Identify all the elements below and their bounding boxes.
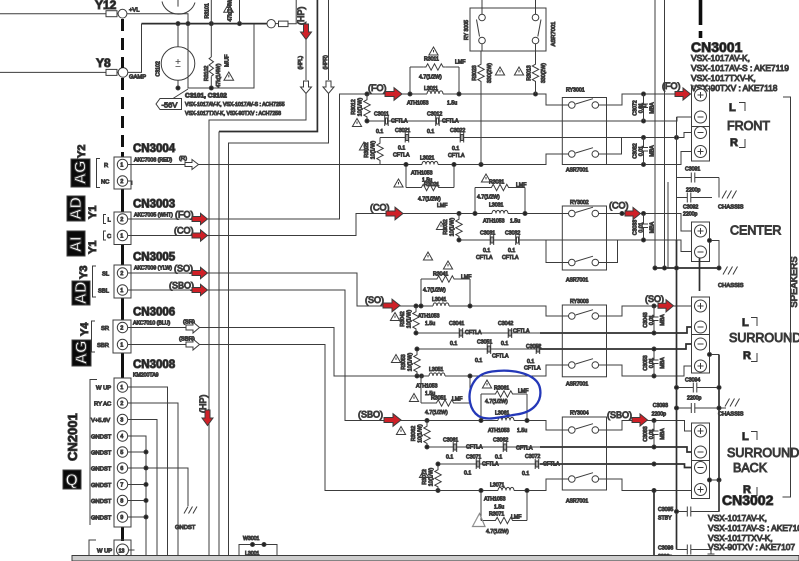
svg-text:(SBO): (SBO) [169,281,194,291]
svg-text:RY3001: RY3001 [566,88,585,94]
node +VL junction circle [118,9,127,18]
svg-text:4.7(1/2W): 4.7(1/2W) [419,75,442,81]
wire pin1 to bus [128,387,168,556]
inductor L3061 [481,417,527,420]
wire CN3006 pin1 SBR out [128,344,186,346]
svg-text:(CO): (CO) [174,226,194,236]
svg-text:0.1: 0.1 [483,248,490,254]
svg-text:4.7(1/2W): 4.7(1/2W) [486,529,509,535]
svg-text:R3062: R3062 [411,426,417,441]
svg-text:CN3008: CN3008 [133,359,176,371]
pin 3 V+5.6V [117,414,127,424]
terminal block SURROUND BACK [692,423,710,499]
svg-text:C3092: C3092 [683,205,698,211]
svg-text:LMF: LMF [455,60,465,66]
warning triangle R3021 [394,179,403,187]
svg-text:LMF: LMF [452,397,462,403]
ground chassis FRONT [722,191,737,199]
svg-text:10(1/W): 10(1/W) [371,141,377,160]
relay RY3004 pole 2 [569,476,576,483]
annotation blue circle around R3061 [470,371,541,419]
wire -56V bold rail [142,23,268,25]
resistor R3022 (shunt) [377,138,383,165]
svg-text:L3011: L3011 [424,86,438,92]
label AD black box second [72,281,90,305]
svg-text:VSX-1017AV-K,: VSX-1017AV-K, [708,513,767,523]
capacitor C3092 [677,197,713,199]
wire speaker return bus B [664,0,666,268]
capacitor C3083 (MBA) [650,421,659,448]
svg-text:C3021: C3021 [395,128,410,134]
wire SO feed from CN3005 [207,273,421,306]
svg-text:4.7(1/2W): 4.7(1/2W) [418,197,441,203]
wire pin5 [128,451,146,453]
svg-text:RY 3005: RY 3005 [464,20,470,40]
warning triangle R3053 [391,355,400,363]
svg-text:2200p: 2200p [686,188,701,194]
node SBO bus junction [652,419,656,423]
svg-text:(HP): (HP) [296,7,306,26]
svg-text:CHASSIS: CHASSIS [718,412,744,418]
svg-text:NC: NC [101,180,109,186]
warning triangle R3042 [390,313,399,321]
connector CN3005 body [114,265,131,298]
terminal SURROUND R+ [695,360,707,372]
relay RY3005 box [470,8,546,51]
svg-text:SBL: SBL [98,289,110,295]
svg-text:R3061: R3061 [494,386,509,392]
node SBL shunt junction [436,489,440,493]
resistor R3102 [210,24,212,88]
svg-text:CFTLA: CFTLA [513,329,530,335]
wire CN3005 pin1 SBO out [128,289,192,291]
connector CN3004 body [114,157,131,189]
svg-text:0.1: 0.1 [452,146,459,152]
svg-text:C3032: C3032 [505,231,520,237]
wire board-edge dash-dot line [121,19,124,152]
svg-text:0.01: 0.01 [639,222,645,232]
arrow red (CO) right [625,207,641,219]
capacitor C3011 [385,116,389,126]
node CO junctions [620,212,624,216]
svg-text:0.1: 0.1 [508,248,515,254]
svg-text:R3101: R3101 [205,3,211,18]
arrow red (FO) out [192,213,208,224]
svg-text:1: 1 [120,343,123,349]
pin 8 GNDST [117,495,127,505]
svg-text:Y8: Y8 [96,56,111,70]
node SO shunt junction [414,304,418,308]
wire HPL lower to bottom [209,94,306,557]
connector CN3008 body [114,378,131,527]
connector pin Y8 [106,69,117,75]
capacitor C3101 (partial, top edge) [162,2,195,15]
resistor R3101 column (partial top) [210,0,212,24]
svg-text:GNDST: GNDST [91,451,112,457]
svg-text:0.01: 0.01 [649,429,655,439]
arrow red (FO) right [675,88,691,100]
svg-text:C3012: C3012 [427,112,442,118]
svg-text:2200p: 2200p [683,212,698,218]
svg-text:R3042: R3042 [400,311,406,326]
node CO shunt junction [457,212,461,216]
wire CO feed from CN3003 [207,214,475,236]
svg-text:ASR7001: ASR7001 [551,22,557,47]
svg-text:GNDST: GNDST [175,525,196,531]
svg-text:MBA: MBA [660,314,666,326]
node FO shunt junction [365,92,369,96]
svg-text:R3012: R3012 [351,99,357,114]
svg-text:0.1: 0.1 [495,455,502,461]
svg-text:0.1: 0.1 [398,146,405,152]
svg-text:+VL: +VL [129,8,140,14]
terminal block SURROUND [692,297,710,373]
relay RY3001 pole 1 [569,102,576,109]
capacitor C3012 [436,116,440,126]
svg-text:GAMP: GAMP [129,75,146,81]
ground chassis SURROUND [719,407,726,409]
svg-text:VSX-1017TXV-K, VSX-90TXV : ACH: VSX-1017TXV-K, VSX-90TXV : ACH7258 [185,111,281,117]
svg-text:0.1: 0.1 [522,471,529,477]
connector CN2002 pin13 [89,540,96,561]
arrow white right (R) [185,160,199,170]
node SO return junction [652,331,656,335]
wire CN3005 pin2 SO out [128,272,192,274]
node R3013 junction [534,92,538,96]
svg-text:C3052: C3052 [526,344,541,350]
wire CENTER minus stub bold [699,258,701,291]
wire HP bold stepped line [219,0,317,132]
wire bus to bottom bold [653,491,655,557]
node network junctions [408,92,412,96]
svg-text:0.1: 0.1 [446,455,453,461]
node SBO return junction [652,445,656,449]
wire connector stem bold [121,152,124,541]
wire capacitor block bottom [188,24,254,88]
capacitor C3082 (MBA) [639,138,648,165]
svg-text:VSX-1017AV-K,: VSX-1017AV-K, [691,53,750,63]
svg-text:CHASSIS: CHASSIS [718,283,744,289]
wire pin13 stub [129,549,135,551]
ground GNDST [184,507,197,514]
svg-text:C3102: C3102 [156,61,162,76]
label Q black box [63,470,81,489]
svg-text:RY3003: RY3003 [570,299,589,305]
svg-text:CN3006: CN3006 [133,307,175,319]
svg-text:LMF: LMF [437,203,447,209]
node SBL bus junction [652,489,656,493]
resistor R3062 (shunt) [424,421,430,448]
svg-text:5: 5 [120,450,123,456]
svg-text:(SO): (SO) [645,294,664,304]
svg-text:CFTLA: CFTLA [393,153,410,159]
svg-text:AKC7010 (BLU): AKC7010 (BLU) [133,321,170,327]
svg-text:Y3: Y3 [78,266,90,279]
svg-text:C3022: C3022 [450,128,465,134]
svg-text:CFTLA: CFTLA [516,446,533,452]
svg-text:C: C [107,234,111,240]
wire SBL return row [438,463,540,465]
warning triangle top [224,4,234,12]
svg-text:R3023: R3023 [472,65,478,80]
svg-text:L: L [742,317,749,329]
pin 1 W UP [117,382,127,392]
warning triangle R3012 [352,119,361,127]
wire chassis collector row [655,267,720,269]
connector CN3001 stem [699,0,703,38]
svg-text:4.7(1/2W): 4.7(1/2W) [485,399,508,405]
resistor R3011 [424,64,446,70]
terminal FRONT R+ [695,146,707,158]
svg-text:(FO): (FO) [662,81,681,91]
svg-text:AG: AG [74,341,91,365]
wire SBL feed from CN3006 [199,345,481,491]
svg-text:R3021: R3021 [424,182,439,188]
svg-text:CFTLA: CFTLA [448,153,465,159]
wire HPR upper [328,0,330,80]
wire Y8 input [0,71,106,73]
svg-text:MBA: MBA [660,428,666,440]
resistor R3021 [406,184,454,190]
svg-text:ASR7001: ASR7001 [566,278,588,284]
capacitor C3053 (MBA) [650,349,659,376]
svg-text:R: R [743,350,751,362]
relay RY3002 pole 1 [569,210,576,217]
svg-text:MUF: MUF [225,54,231,67]
wire SR feed from CN3006 [199,328,421,377]
warning triangle R3041 [443,261,452,269]
wire HPL upper [305,39,307,80]
svg-text:C3072: C3072 [525,454,540,460]
relay RY3003 pole 2 [569,362,576,369]
svg-text:1: 1 [120,288,123,294]
svg-text:0.01: 0.01 [649,358,655,368]
wire SBL main to relay [527,479,569,491]
svg-text:SPEAKERS: SPEAKERS [789,256,799,307]
capacitor C3061 [453,442,457,452]
wire FO return row [367,117,692,121]
relay RY3002 pole 2 [569,259,576,266]
wire FO main to relay [459,94,569,105]
svg-text:GNDST: GNDST [91,467,112,473]
svg-text:ATH1053: ATH1053 [488,428,510,434]
svg-text:10(1/W): 10(1/W) [408,353,414,372]
svg-text:(FO): (FO) [175,210,194,220]
arrow white right (SR) [186,322,200,333]
resistor R3051 [421,400,470,406]
relay RY3001 exit wire R [599,138,622,155]
svg-text:Y4: Y4 [79,322,91,336]
resistor R3061 [481,391,527,397]
resistor R3041 [421,276,470,282]
svg-text:SR: SR [101,326,109,332]
resistor R3053 (shunt) [414,349,420,376]
arrow red (FO) mid [385,88,402,101]
wire +VL to capacitor block [127,14,188,24]
node collector junctions [653,266,657,270]
svg-text:R3011: R3011 [424,57,439,63]
resistor R3071 [481,517,527,523]
arrow red (SO) right [658,300,674,312]
svg-text:VSX-1017AV-S : AKE7108: VSX-1017AV-S : AKE7108 [708,523,799,533]
ground mini C3096 [708,550,715,557]
connector CN3006 body [113,320,131,353]
resistor R3013 [532,51,538,94]
svg-text:2200p: 2200p [687,396,702,402]
svg-text:9: 9 [120,515,123,521]
svg-text:CFTLA: CFTLA [476,255,493,261]
wire rail turn-up to top edge [288,0,296,24]
relay RY3003 pole 1 [569,313,576,320]
wire SURROUND strap [710,354,720,356]
wire pin3 to bus [128,420,157,557]
svg-text:ATH1053: ATH1053 [411,171,433,177]
warning triangle CO row [423,252,432,260]
node C3082 bottom junction [642,163,646,167]
warning triangle R3072 [419,470,428,478]
svg-text:3: 3 [120,418,123,424]
inductor L3011 [410,91,459,94]
svg-text:(SO): (SO) [365,295,384,305]
filter network FO box [410,67,459,94]
label AD black box [67,196,85,221]
svg-text:L3071: L3071 [490,483,505,489]
wire pin4 to ground bus [128,436,146,556]
arrow red (CO) mid [386,207,403,220]
node SBL return junction [652,462,656,466]
wire R main to relay [454,154,569,165]
svg-text:4.7(1/2W): 4.7(1/2W) [477,195,500,201]
relay RY3003 exit wire SO [599,306,692,316]
pin label L [104,215,107,224]
capacitor C3062 [503,442,507,452]
resistor R3031 [475,184,525,190]
wire R lower row to terminal [607,152,692,165]
svg-text:AI: AI [68,237,85,253]
svg-text:R3102: R3102 [204,66,210,81]
wire SBACK strap [710,479,720,481]
svg-text:(SBO): (SBO) [358,410,383,420]
wire HPR lower to bottom [229,94,329,557]
svg-text:L3041: L3041 [432,297,447,303]
svg-text:L3051: L3051 [429,367,444,373]
warning triangle R3061 [482,380,491,388]
svg-text:RY3004: RY3004 [570,411,589,417]
svg-text:0.01: 0.01 [639,103,645,113]
svg-text:4.7(1/2W): 4.7(1/2W) [425,410,448,416]
svg-text:2: 2 [120,271,123,277]
node R3023 junction [479,163,483,167]
wire pin8 [128,500,146,502]
wire C3101 right column [239,0,241,24]
wire pin6 to GNDST ground [128,468,188,506]
svg-text:R: R [730,137,738,149]
relay RY3004 exit wire SBO [599,421,692,432]
svg-text:W UP: W UP [97,549,112,555]
pin 7 GNDST [117,479,127,489]
svg-text:C3042: C3042 [498,321,513,327]
svg-text:330(2W): 330(2W) [541,63,547,83]
svg-text:AKC7008 (RED): AKC7008 (RED) [134,158,172,164]
wire CENTER strap to chassis [710,241,720,269]
svg-text:ATH1053: ATH1053 [483,219,505,225]
svg-text:CFTLA: CFTLA [465,330,482,336]
svg-text:VSX-1017AV-S : AKE7119: VSX-1017AV-S : AKE7119 [691,63,789,73]
svg-text:CENTER: CENTER [730,224,781,238]
warning triangle R3062 [396,427,405,435]
svg-text:(HPR): (HPR) [323,55,329,70]
svg-text:CFTLA: CFTLA [391,119,408,125]
svg-text:Y1: Y1 [87,241,99,254]
capacitor C3072b [535,459,539,469]
warning triangle near R3102 [224,72,234,80]
svg-text:R3013: R3013 [527,65,533,80]
svg-text:LMF: LMF [518,389,528,395]
wire CN3006 pin2 SR out [128,327,186,329]
terminal SBACK R- [695,462,707,474]
svg-text:0.1: 0.1 [475,358,482,364]
svg-text:0.1: 0.1 [527,359,534,365]
terminal SURROUND R- [695,338,707,350]
svg-text:1.5u: 1.5u [425,321,435,327]
svg-text:Y1: Y1 [87,206,99,219]
svg-text:2200p: 2200p [652,412,667,418]
capacitor C3022 [460,133,464,143]
bracket CN2001 [90,380,97,452]
terminal SBACK L+ [695,425,707,437]
node SO bus junction [652,304,656,308]
svg-text:VSX-1017TXV-K,: VSX-1017TXV-K, [691,73,756,83]
wire CO main through relay [525,213,569,215]
svg-text:CFTLA: CFTLA [524,366,541,372]
svg-text:0.1: 0.1 [501,341,508,347]
svg-text:ATH1053: ATH1053 [418,314,440,320]
arrow white right (SBR) [186,339,200,350]
svg-text:ASR7001: ASR7001 [566,168,588,174]
svg-text:LMF: LMF [516,183,526,189]
svg-text:330(2W): 330(2W) [487,63,493,83]
svg-text:FRONT: FRONT [727,119,770,133]
arrow red (SO) out [192,267,208,278]
label AG black box second [72,340,91,366]
terminal block FRONT [692,86,710,161]
relay RY3001 box [562,98,606,165]
terminal block CENTER [692,222,710,262]
warning triangle R3031 [481,174,490,182]
svg-text:(SO): (SO) [174,264,193,274]
arrow red (CO) out [192,230,208,241]
capacitor C3052 [536,344,540,354]
wire CN3003 pin1 CO out [128,235,192,237]
capacitor C3032 [516,235,520,245]
wire CN3003 pin2 FO out [128,218,192,220]
filter network SBO box [481,394,527,421]
svg-text:CN2001: CN2001 [65,413,80,461]
pin 2 RY AC [117,398,127,408]
node FO return junction [642,119,646,123]
svg-text:CFTLA: CFTLA [466,445,483,451]
svg-text:LMF: LMF [511,515,521,521]
wire FO feed from CN3003 [207,94,410,219]
svg-text:2: 2 [120,326,123,332]
wire R channel main [198,164,406,166]
label AG black box [71,159,90,187]
svg-text:Y2: Y2 [76,145,88,158]
wire W3001 box [239,545,277,561]
node SR return junction [652,347,656,351]
resistor R3023 [478,51,484,165]
wire C3091 right leg [718,178,720,198]
